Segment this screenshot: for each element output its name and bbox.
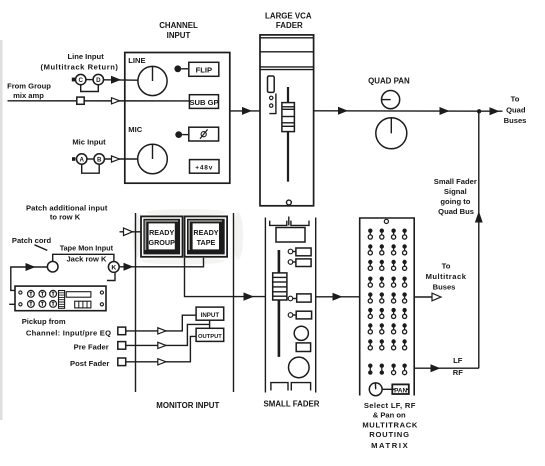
VCA switch <box>268 76 275 92</box>
VCA bottom screw <box>287 200 292 205</box>
box OUTPUT <box>196 328 224 341</box>
small fader switch 3 <box>288 294 311 302</box>
svg-text:Jack row K: Jack row K <box>66 254 107 263</box>
svg-text:From Group: From Group <box>7 81 51 90</box>
VCA leds <box>270 96 273 107</box>
VCA fader track <box>287 87 289 182</box>
svg-text:ROUTING: ROUTING <box>369 430 410 439</box>
svg-text:INPUT: INPUT <box>167 31 191 40</box>
svg-text:mix amp: mix amp <box>13 91 44 100</box>
svg-text:(Multitrack Return): (Multitrack Return) <box>41 63 119 72</box>
wire patch cord loop <box>11 254 114 290</box>
small fader switch 4 <box>288 311 311 319</box>
svg-text:SUB GP: SUB GP <box>189 98 218 107</box>
svg-text:Select LF, RF: Select LF, RF <box>364 401 416 410</box>
svg-text:Tape Mon Input: Tape Mon Input <box>60 244 114 253</box>
svg-text:Pre Fader: Pre Fader <box>74 342 109 351</box>
wire K to ready tape <box>119 258 203 271</box>
jack K <box>108 262 119 273</box>
node D <box>93 74 103 84</box>
svg-text:OUTPUT: OUTPUT <box>198 334 222 340</box>
patchbay jacks <box>28 290 57 307</box>
label Tape Mon Input / Jack row K <box>60 244 114 264</box>
svg-text:& Pan on: & Pan on <box>373 410 406 419</box>
small fader knob B <box>289 357 310 378</box>
channel input module box <box>125 53 230 184</box>
button SUB GP <box>189 95 218 109</box>
svg-text:K: K <box>111 265 116 272</box>
button +48v <box>190 160 220 174</box>
svg-text:A: A <box>79 156 84 163</box>
label Line Input (Multitrack Return) <box>41 52 119 71</box>
label From Group mix amp <box>7 81 51 100</box>
svg-text:READY: READY <box>149 228 174 237</box>
svg-text:going to: going to <box>440 197 470 206</box>
patchbay switch bank <box>75 301 91 308</box>
scan artifacts <box>0 40 243 420</box>
svg-text:READY: READY <box>193 228 218 237</box>
small fader right rail <box>315 218 317 393</box>
box PAN <box>392 384 409 394</box>
svg-text:MIC: MIC <box>128 125 142 134</box>
svg-text:To: To <box>442 262 451 271</box>
multitrack routing matrix box <box>360 218 415 396</box>
small fader top brackets <box>270 217 309 226</box>
svg-text:Patch cord: Patch cord <box>12 236 52 245</box>
mic gain knob <box>138 144 168 174</box>
box INPUT <box>196 307 224 320</box>
flip button indicator <box>174 65 188 72</box>
svg-text:TAPE: TAPE <box>197 238 216 247</box>
wire input output connector <box>209 320 211 328</box>
node quad junction <box>477 109 481 113</box>
svg-text:C: C <box>78 77 83 84</box>
small fader switch 2 <box>288 259 311 267</box>
quad pan trim <box>382 91 400 109</box>
matrix top screw <box>384 219 388 223</box>
label Small Fader Signal going to Quad Bus <box>434 177 477 216</box>
svg-text:Multitrack: Multitrack <box>426 272 467 281</box>
wire channel output to VCA fader <box>230 107 260 115</box>
svg-text:FLIP: FLIP <box>196 66 212 75</box>
wire K normal stub <box>107 272 115 280</box>
svg-text:MONITOR INPUT: MONITOR INPUT <box>156 401 219 410</box>
svg-text:Small Fader: Small Fader <box>434 177 477 186</box>
wire monitor output to small fader <box>185 258 266 301</box>
phase button indicator <box>175 131 189 138</box>
wire VCA output to quad buses <box>314 107 503 115</box>
svg-text:Pickup from: Pickup from <box>22 317 66 326</box>
wire patch additional input <box>120 228 142 236</box>
label CHANNEL INPUT <box>159 21 198 40</box>
quad pan knob <box>376 118 407 149</box>
svg-text:Patch additional input: Patch additional input <box>26 203 108 212</box>
wire line input <box>72 76 138 92</box>
node B <box>94 154 104 164</box>
node A <box>77 154 87 164</box>
svg-text:Quad Bus: Quad Bus <box>438 207 474 216</box>
svg-text:Line Input: Line Input <box>67 52 104 61</box>
patchbay label window <box>66 292 91 298</box>
label Patch cord <box>12 236 52 250</box>
svg-text:LINE: LINE <box>128 56 145 65</box>
svg-text:SMALL FADER: SMALL FADER <box>264 400 320 409</box>
wire patchbay stub <box>9 303 15 305</box>
svg-text:LARGE VCA: LARGE VCA <box>265 11 312 20</box>
small fader knob <box>273 273 287 300</box>
button READY GROUP <box>141 216 183 256</box>
monitor strip left rail <box>135 213 137 392</box>
wire small fader signal to quad bus <box>475 111 483 368</box>
svg-text:Channel: Input/pre EQ: Channel: Input/pre EQ <box>26 329 111 338</box>
svg-text:Buses: Buses <box>433 282 456 291</box>
svg-text:+48v: +48v <box>195 164 213 171</box>
svg-text:INPUT: INPUT <box>201 312 220 319</box>
svg-text:LF: LF <box>453 356 463 365</box>
svg-text:D: D <box>96 77 101 84</box>
wire matrix LF RF output <box>414 364 478 372</box>
svg-text:MULTITRACK: MULTITRACK <box>362 421 418 430</box>
label LF RF <box>453 356 463 377</box>
wire pre fader pickup <box>118 324 210 349</box>
label To Quad Buses <box>504 94 527 125</box>
large VCA fader module box <box>260 35 314 206</box>
small fader rect <box>296 343 310 352</box>
svg-text:Post Fader: Post Fader <box>70 359 109 368</box>
svg-text:FADER: FADER <box>276 21 303 30</box>
patchbay box <box>15 286 106 311</box>
button READY TAPE <box>185 216 228 256</box>
svg-text:Signal: Signal <box>444 187 467 196</box>
wire channel input pre EQ pickup <box>118 315 196 335</box>
small fader track <box>278 250 281 357</box>
small fader switch 1 <box>288 248 311 256</box>
node C <box>76 74 86 84</box>
label Select LF RF and Pan on MULTITRACK ROUTING MATRIX <box>362 401 418 450</box>
small fader knob A <box>294 326 308 340</box>
small fader top plate <box>276 228 305 243</box>
svg-text:QUAD PAN: QUAD PAN <box>368 76 410 85</box>
matrix switch grid <box>368 229 407 375</box>
svg-text:B: B <box>97 156 102 163</box>
patchbay fader strip <box>59 291 65 309</box>
matrix pan pot <box>369 383 392 396</box>
button phase reverse <box>189 127 219 141</box>
svg-text:GROUP: GROUP <box>149 238 176 247</box>
label LARGE VCA FADER <box>265 11 312 30</box>
wire post fader pickup <box>118 336 196 365</box>
svg-text:RF: RF <box>453 368 463 377</box>
small fader bottom brackets <box>271 383 311 391</box>
wire small fader to matrix <box>316 293 360 301</box>
svg-text:CHANNEL: CHANNEL <box>159 21 198 30</box>
line gain knob <box>138 66 167 95</box>
svg-text:To: To <box>511 94 520 103</box>
label Patch additional input to row K <box>26 203 108 221</box>
wire matrix to multitrack buses <box>414 293 441 301</box>
wire from group mix amp <box>8 97 190 104</box>
button FLIP <box>189 62 219 76</box>
wire mic input <box>72 156 138 173</box>
svg-text:Mic Input: Mic Input <box>72 138 106 147</box>
svg-text:Quad: Quad <box>506 105 526 114</box>
patch cord plug <box>47 261 58 272</box>
svg-text:PAN: PAN <box>394 387 407 394</box>
monitor strip right rail <box>233 213 235 392</box>
svg-text:MATRIX: MATRIX <box>371 441 409 450</box>
small fader left rail <box>264 218 266 393</box>
svg-text:to row K: to row K <box>50 212 81 221</box>
VCA fader knob <box>282 103 295 132</box>
label To Multitrack Buses <box>426 262 467 292</box>
VCA bracket <box>269 94 276 114</box>
svg-text:Buses: Buses <box>504 116 527 125</box>
